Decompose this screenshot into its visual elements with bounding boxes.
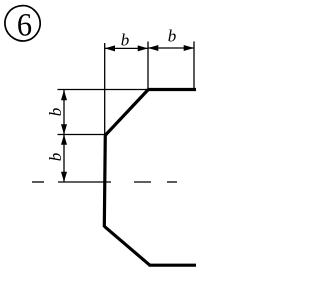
top dimension line b (right span) [148, 45, 194, 51]
center line (dash-dot axis) [32, 181, 177, 183]
svg-text:6: 6 [17, 6, 32, 42]
figure number circle 6 [5, 6, 40, 43]
extension line (horizontal, top flange level) [58, 89, 149, 91]
svg-text:b: b [46, 108, 65, 117]
extension line (horizontal, chamfer corner level) [58, 134, 106, 136]
profile outline: bottom chamfer [104, 226, 150, 265]
profile outline: vertical web [104, 134, 105, 227]
extension line (middle top) [147, 42, 149, 89]
svg-text:b: b [121, 30, 130, 49]
svg-text:b: b [46, 153, 65, 162]
extension line (left, above profile corner) [104, 43, 106, 135]
profile outline: top chamfer [106, 90, 149, 136]
extension line (right top) [193, 41, 195, 88]
left vertical dimension b (upper span) [61, 90, 67, 135]
left vertical dimension b (lower span) [61, 135, 67, 183]
profile outline: bottom flange [149, 264, 196, 267]
top dimension line b (left span) [105, 45, 148, 51]
svg-text:b: b [168, 27, 177, 46]
profile outline: top flange [148, 88, 197, 91]
